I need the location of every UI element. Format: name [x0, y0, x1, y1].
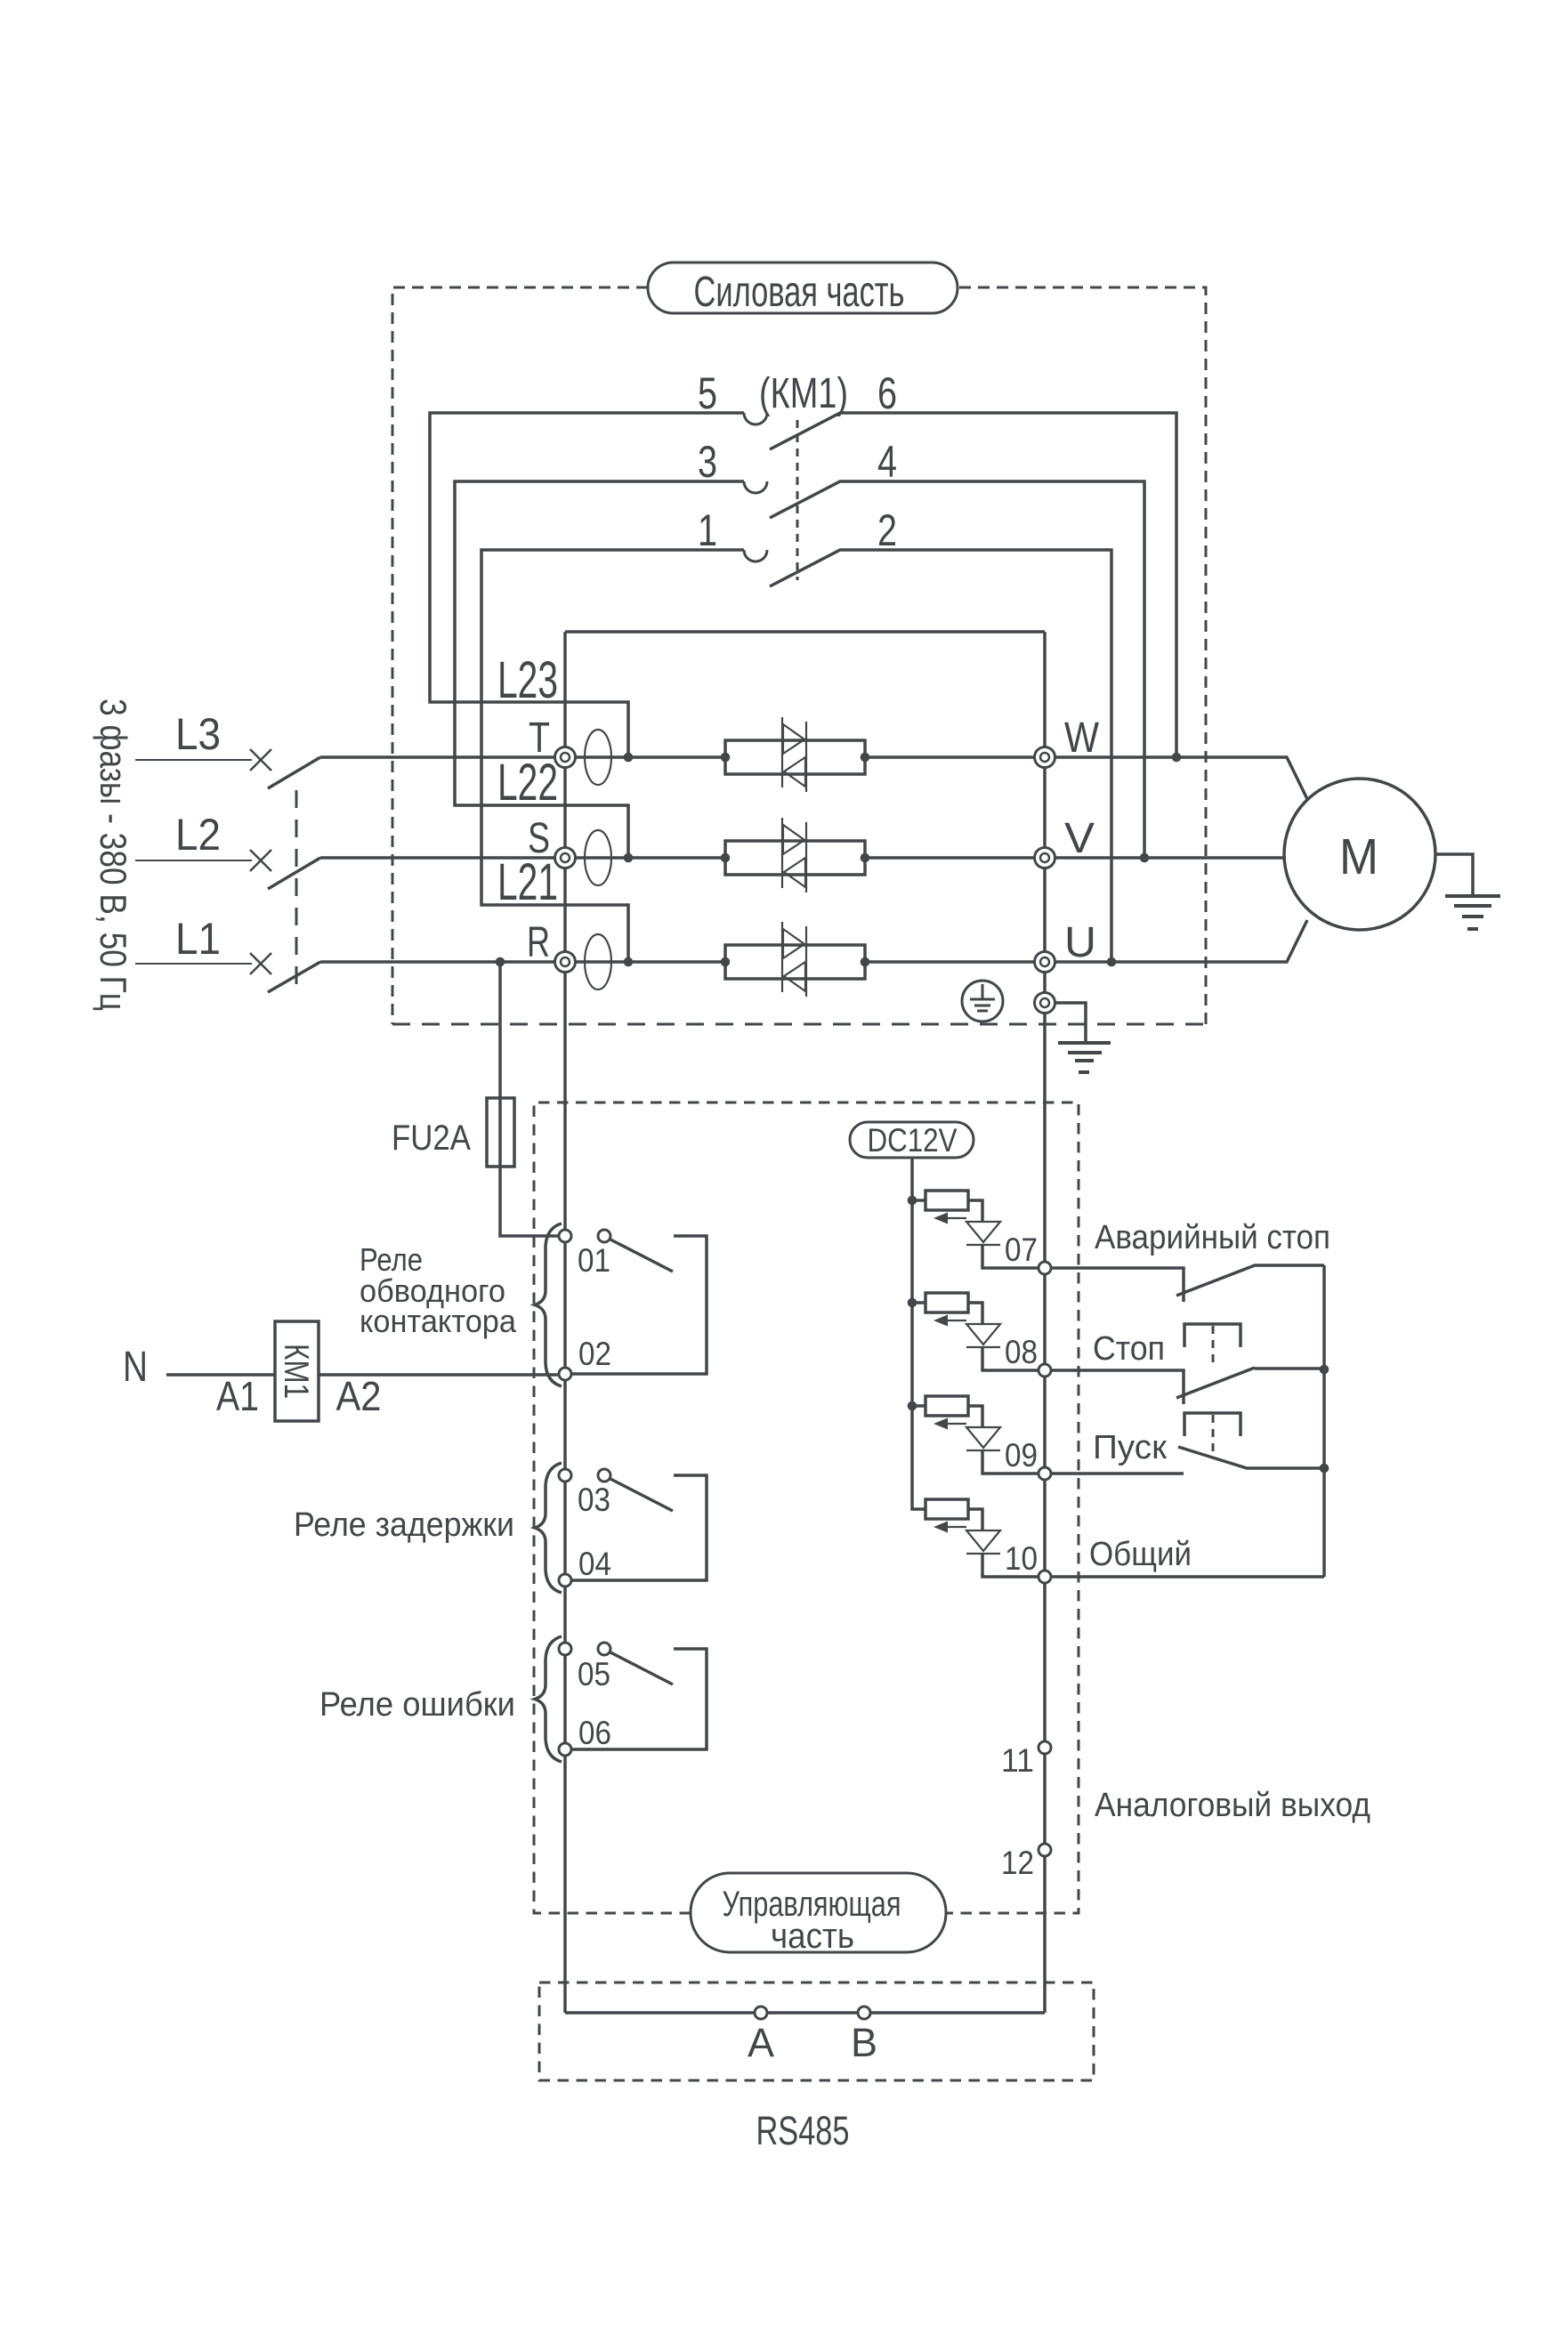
svg-text:05: 05 — [578, 1656, 610, 1692]
svg-text:Стоп: Стоп — [1093, 1330, 1165, 1368]
svg-text:U: U — [1064, 919, 1096, 966]
svg-text:(КМ1): (КМ1) — [759, 370, 848, 417]
svg-text:R: R — [527, 919, 550, 966]
svg-text:12: 12 — [1001, 1845, 1034, 1881]
svg-text:06: 06 — [578, 1715, 611, 1751]
svg-text:Аналоговый выход: Аналоговый выход — [1095, 1787, 1370, 1824]
svg-text:1: 1 — [698, 505, 717, 555]
svg-text:V: V — [1064, 815, 1095, 862]
svg-text:11: 11 — [1001, 1742, 1034, 1779]
svg-text:часть: часть — [771, 1917, 854, 1956]
svg-text:4: 4 — [877, 437, 897, 487]
svg-text:L23: L23 — [497, 651, 558, 709]
svg-text:07: 07 — [1005, 1232, 1038, 1268]
svg-text:04: 04 — [578, 1546, 611, 1582]
svg-text:S: S — [528, 815, 550, 862]
svg-text:Реле задержки: Реле задержки — [294, 1506, 514, 1544]
svg-text:L1: L1 — [175, 914, 221, 964]
svg-text:01: 01 — [578, 1242, 610, 1279]
svg-text:RS485: RS485 — [756, 2108, 850, 2153]
svg-text:W: W — [1064, 715, 1100, 762]
svg-text:03: 03 — [578, 1482, 610, 1518]
svg-text:02: 02 — [578, 1336, 611, 1372]
svg-text:Общий: Общий — [1089, 1536, 1192, 1573]
svg-text:FU2A: FU2A — [392, 1118, 471, 1158]
svg-text:контактора: контактора — [360, 1303, 517, 1339]
svg-text:5: 5 — [698, 368, 717, 418]
svg-text:3 фазы - 380 В, 50 Гц: 3 фазы - 380 В, 50 Гц — [93, 699, 134, 1011]
svg-text:DC12V: DC12V — [868, 1122, 958, 1159]
svg-text:N: N — [123, 1344, 148, 1391]
svg-text:3: 3 — [698, 437, 717, 487]
svg-text:L3: L3 — [175, 709, 221, 759]
svg-text:T: T — [529, 715, 550, 762]
svg-text:Реле ошибки: Реле ошибки — [319, 1686, 515, 1724]
svg-text:L22: L22 — [497, 754, 558, 812]
svg-text:A2: A2 — [336, 1373, 382, 1419]
svg-text:A1: A1 — [216, 1373, 259, 1419]
svg-text:КМ1: КМ1 — [277, 1344, 315, 1399]
svg-text:M: M — [1339, 828, 1378, 885]
svg-text:09: 09 — [1005, 1437, 1038, 1474]
svg-text:Аварийный стоп: Аварийный стоп — [1095, 1219, 1330, 1256]
svg-text:6: 6 — [877, 368, 897, 418]
svg-text:В: В — [851, 2020, 877, 2065]
svg-text:L2: L2 — [175, 810, 221, 860]
svg-text:Силовая часть: Силовая часть — [694, 269, 905, 316]
svg-text:Пуск: Пуск — [1093, 1429, 1167, 1466]
svg-text:2: 2 — [877, 505, 897, 555]
svg-text:08: 08 — [1005, 1334, 1038, 1370]
svg-text:10: 10 — [1005, 1540, 1038, 1577]
svg-text:А: А — [748, 2020, 774, 2065]
